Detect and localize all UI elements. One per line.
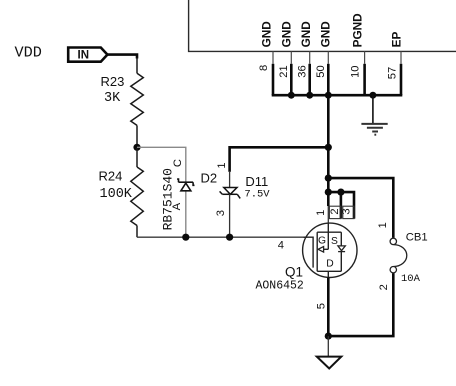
- wire to ground: [327, 336, 329, 356]
- svg-text:GND: GND: [299, 21, 313, 48]
- source arrow line: [318, 248, 328, 250]
- gate lead and gate bar: [304, 237, 314, 267]
- junction pin21: [288, 92, 295, 99]
- svg-text:D: D: [326, 259, 333, 270]
- svg-text:GND: GND: [319, 21, 333, 48]
- svg-text:50: 50: [315, 65, 327, 77]
- svg-text:3: 3: [215, 210, 227, 216]
- svg-text:3: 3: [341, 208, 353, 214]
- drain vertical: [327, 271, 329, 280]
- svg-text:D2: D2: [201, 170, 218, 185]
- junction D11 pin3: [226, 234, 233, 241]
- diode D2 (schottky RB751S40): [181, 183, 191, 191]
- junction main/CB1: [325, 175, 332, 182]
- source vertical: [327, 223, 329, 249]
- svg-text:3K: 3K: [104, 91, 121, 106]
- svg-text:10A: 10A: [401, 273, 421, 285]
- svg-text:GND: GND: [280, 21, 294, 48]
- pin 57 (EP) stub: [400, 51, 402, 63]
- pin 10 (PGND) stub: [364, 51, 366, 63]
- pin 21 (GND) stub: [290, 51, 292, 63]
- svg-text:EP: EP: [389, 32, 403, 48]
- wire IN port to R23: [107, 55, 137, 59]
- junction drain/CB1/ground: [325, 333, 332, 340]
- wire CB1 branch: [328, 178, 393, 238]
- svg-text:Q1: Q1: [285, 264, 303, 279]
- zener diode D11 7.5V: [224, 188, 237, 195]
- junction D2 anode: [182, 234, 189, 241]
- svg-text:4: 4: [278, 240, 284, 252]
- pin lead D11 pin3: [229, 194, 231, 237]
- power ground symbol (signal ground): [361, 124, 387, 135]
- top horizontal S node: [317, 231, 341, 233]
- wire CB1 bottom: [328, 273, 393, 336]
- bottom horizontal D node: [317, 270, 341, 272]
- svg-text:7.5V: 7.5V: [244, 189, 270, 201]
- wire Q1 drain pin 5: [327, 278, 330, 337]
- svg-text:R24: R24: [99, 169, 123, 184]
- junction main/D11: [325, 144, 332, 151]
- wire D2 branch (gray net): [137, 147, 186, 237]
- node junction R23/R24/D2: [133, 144, 140, 151]
- pin lead Q1 pin1: [327, 206, 329, 223]
- svg-text:10: 10: [349, 65, 361, 77]
- source arrowhead (open): [318, 247, 324, 253]
- svg-text:A: A: [171, 202, 183, 210]
- pin number box 3 (Q1): [343, 206, 354, 218]
- svg-text:R23: R23: [101, 74, 125, 89]
- svg-text:AON6452: AON6452: [256, 280, 304, 293]
- svg-text:36: 36: [296, 65, 308, 77]
- svg-text:CB1: CB1: [406, 231, 428, 243]
- pin lead D11 pin1: [229, 172, 231, 188]
- pin 50 (GND) stub: [327, 51, 329, 63]
- svg-text:2: 2: [378, 284, 390, 290]
- svg-text:GND: GND: [260, 21, 274, 48]
- resistor R23: [131, 58, 144, 148]
- circuit breaker CB1: [390, 238, 396, 244]
- wire D11 top: [228, 146, 231, 172]
- svg-text:8: 8: [258, 65, 270, 71]
- junction pin50 / main net: [325, 92, 332, 99]
- gate net wire R24/D2/D11 to Q1: [137, 236, 307, 238]
- svg-text:5: 5: [316, 303, 328, 309]
- svg-text:57: 57: [386, 67, 398, 79]
- svg-text:G: G: [318, 236, 326, 247]
- channel bar: [316, 232, 318, 271]
- pin 36 (GND) stub: [309, 51, 311, 63]
- right vertical / body diode path: [340, 232, 342, 246]
- transistor Q1 AON6452 (N-MOSFET in circle): [303, 223, 357, 277]
- pin number box 2 (Q1): [329, 206, 341, 218]
- junction ground tap: [369, 92, 376, 99]
- svg-text:1: 1: [315, 210, 327, 216]
- svg-text:2: 2: [329, 208, 341, 214]
- wire D11 branch horizontal: [230, 146, 329, 149]
- GND bus wire: [273, 94, 401, 95]
- svg-text:100K: 100K: [100, 187, 133, 202]
- svg-text:PGND: PGND: [351, 13, 365, 48]
- svg-text:1: 1: [377, 222, 389, 228]
- junction pin1: [325, 189, 332, 196]
- IC U1 outline (bottom-left corner of large part): [189, 0, 456, 51]
- svg-text:RB751S40: RB751S40: [161, 168, 176, 230]
- svg-text:D11: D11: [245, 174, 268, 189]
- main vertical net wire from pin50: [327, 95, 330, 206]
- ground symbol (open triangle): [317, 357, 342, 369]
- wire Q1 source pins 1/2/3: [328, 192, 354, 219]
- svg-text:21: 21: [278, 65, 290, 77]
- port IN: [68, 48, 107, 62]
- svg-text:VDD: VDD: [15, 44, 42, 62]
- svg-text:IN: IN: [78, 50, 90, 62]
- body diode triangle: [338, 246, 345, 251]
- svg-text:1: 1: [216, 162, 228, 168]
- svg-text:C: C: [172, 159, 184, 167]
- svg-text:S: S: [331, 236, 338, 247]
- resistor R24: [131, 147, 144, 237]
- junction pin36: [306, 92, 313, 99]
- junction pin2: [337, 189, 344, 196]
- pin 8 (GND) stub: [272, 51, 274, 63]
- wire ground tap: [372, 95, 374, 123]
